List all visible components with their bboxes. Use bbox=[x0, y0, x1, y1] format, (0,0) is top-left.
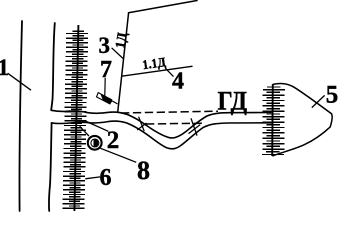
svg-text:ГД: ГД bbox=[218, 88, 248, 116]
right casing thread hatching ticks bbox=[262, 87, 285, 155]
leader line for 3 bbox=[112, 48, 124, 59]
dashed design line (lower) bbox=[146, 122, 203, 125]
leader line for 5 bbox=[312, 95, 325, 107]
leader line for 2 bbox=[84, 121, 108, 132]
svg-text:5: 5 bbox=[326, 82, 338, 109]
svg-text:1: 1 bbox=[0, 55, 9, 80]
casing wall 6 thread hatching ticks bbox=[63, 31, 89, 208]
svg-text:6: 6 bbox=[100, 165, 112, 191]
whipstock marker (item 7 target): outlined parallelogram bbox=[97, 93, 112, 104]
whipstock tail wire bbox=[112, 101, 117, 104]
svg-text:4: 4 bbox=[172, 69, 184, 95]
casing wall 6 (vertical well) line bbox=[74, 25, 78, 211]
wire: slant boundary line of pocket bbox=[118, 13, 129, 113]
leader line for 6 bbox=[85, 177, 100, 179]
wire: casing wall upper part (line 2) bbox=[51, 23, 55, 110]
leader tick from sensor circle to borehole bbox=[80, 126, 89, 136]
crossing mark X right bbox=[189, 118, 201, 135]
whipstock filled arrow bbox=[101, 94, 113, 104]
svg-text:7: 7 bbox=[100, 57, 112, 83]
wire: top boundary line bbox=[129, 1, 198, 13]
leader tick from dim line to 4 bbox=[165, 68, 173, 76]
wire: formation boundary line 1 bbox=[19, 21, 22, 211]
svg-text:1.1Д: 1.1Д bbox=[141, 55, 167, 73]
crossing mark X left bbox=[137, 117, 146, 132]
svg-text:1Д: 1Д bbox=[112, 30, 130, 49]
wire: lower wall of horizontal borehole bbox=[52, 121, 271, 149]
svg-text:3: 3 bbox=[99, 33, 111, 58]
bottomhole leaf shape 5 bbox=[272, 83, 332, 156]
leader line for 7 bbox=[104, 78, 106, 96]
leader line for 8 bbox=[100, 148, 136, 162]
wire: casing wall lower continuation (line 2) bbox=[49, 123, 52, 211]
leader line for 1 bbox=[8, 73, 31, 90]
casing wall right (bottomhole) bbox=[271, 84, 274, 156]
svg-text:8: 8 bbox=[137, 156, 150, 185]
wire: upper wall of horizontal borehole bbox=[51, 110, 271, 138]
dashed design line (upper) bbox=[121, 111, 218, 113]
svg-text:2: 2 bbox=[107, 127, 120, 154]
wire: dimension line 1.1Д bbox=[122, 66, 192, 76]
sensor symbol 8: circle with half-filled dot bbox=[88, 136, 102, 150]
